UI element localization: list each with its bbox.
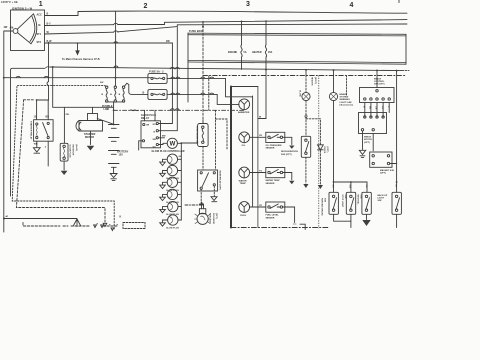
svg-text:S/W (OPT): S/W (OPT) [281, 154, 292, 156]
wire fuse1 output to ammeter [167, 78, 253, 96]
backup light switch [392, 192, 401, 214]
glow relay pin R3 stub [158, 137, 164, 139]
vertical feed at x116 from line A [115, 12, 117, 78]
wire relay R4 to W lamp [158, 143, 167, 144]
starter relay output down [45, 141, 48, 166]
glow plug 3 [160, 177, 182, 192]
svg-text:STOP LIGHT: STOP LIGHT [341, 195, 343, 208]
svg-text:YB: YB [259, 135, 262, 137]
svg-text:LINK: LINK [104, 108, 110, 111]
winch control switch [360, 79, 395, 103]
fuse box outline [188, 29, 406, 102]
svg-text:AM: AM [10, 27, 14, 30]
wire W lamp to glow fuse [177, 142, 197, 145]
tiny end arrows bottom [94, 225, 114, 231]
ground below neutral switch [362, 214, 370, 226]
svg-text:S/W: S/W [378, 200, 382, 202]
svg-text:BR: BR [46, 117, 50, 119]
junction dot glow bus top [180, 142, 182, 144]
ground below battery [110, 174, 117, 181]
svg-text:SW: SW [153, 139, 156, 141]
glow indicator W lamp [167, 138, 177, 148]
fusible link 2 [110, 86, 116, 102]
dashed stub x209 [208, 76, 210, 111]
svg-text:ENGINE: ENGINE [228, 52, 238, 54]
connector jog on line B [114, 23, 119, 24]
drops to switches [334, 182, 368, 192]
dashed below deceleration to arrow [303, 157, 308, 188]
wire water gauge to sender [250, 172, 266, 174]
svg-text:S/W: S/W [360, 195, 362, 199]
wire ACC (line A) [45, 11, 408, 15]
wire IG (line B) [45, 20, 408, 26]
junction dot on line B at x203 [202, 21, 204, 23]
fuse 5A-2 no2 [143, 90, 168, 100]
fusible link 1 [102, 86, 108, 102]
magnet switch to backup feed [390, 163, 397, 165]
starter motor [76, 114, 103, 140]
backup light feed [396, 71, 398, 193]
svg-text:K: K [120, 216, 122, 219]
fuse HEATER 20A [252, 21, 273, 118]
wire color labels above switches [331, 185, 396, 189]
backup return down [396, 214, 398, 227]
dashed below diode to arrow [318, 151, 323, 190]
stop light switch [346, 192, 355, 214]
feed drop to glow relay pin1 [215, 110, 217, 170]
long vertical from line C to glow relay pin2 [158, 28, 177, 131]
svg-text:B-Y: B-Y [47, 23, 52, 26]
ground below main relay [211, 186, 217, 202]
glow plug resistor feed [63, 107, 65, 143]
wire line C [45, 24, 408, 34]
junction dot winch feed [376, 69, 378, 71]
fuel sender return wire [283, 207, 295, 223]
main relay [198, 170, 222, 191]
ammeter gauge [238, 99, 250, 114]
svg-text:BW: BW [162, 136, 166, 138]
svg-text:GLOW PLUG CONTROLLER: GLOW PLUG CONTROLLER [152, 150, 185, 153]
svg-text:YG: YG [259, 170, 262, 172]
svg-text:GLOW: GLOW [299, 90, 301, 97]
glow plug 4 [160, 189, 182, 204]
links bottom bus [106, 102, 125, 125]
svg-text:DECELERATION: DECELERATION [281, 150, 298, 153]
svg-text:AMMETER: AMMETER [238, 111, 250, 114]
junction dot heater on wire E [265, 69, 267, 71]
ground at oil sender [283, 137, 295, 149]
svg-text:RELAY: RELAY [141, 117, 149, 120]
svg-text:DIODE: DIODE [323, 147, 325, 154]
dash-dot battery feed to glow relay [114, 109, 244, 111]
dashed end arrow x105 [103, 223, 107, 226]
svg-text:FUEL: FUEL [240, 215, 247, 217]
svg-text:WB: WB [34, 144, 38, 146]
dashed harness line inner [16, 100, 105, 223]
lamp wire down to switch row [333, 101, 335, 182]
svg-text:FUEL LEVEL: FUEL LEVEL [266, 215, 280, 217]
parking brake switch [329, 192, 338, 214]
svg-text:PARKING BRAKE: PARKING BRAKE [320, 198, 323, 216]
svg-text:(4+60): (4+60) [75, 145, 78, 152]
link3 top connection to fuse2 [125, 83, 148, 94]
switch row bus [334, 181, 368, 183]
glow lamp to deceleration dashed [305, 101, 307, 137]
fuse 5A-2 no1 [148, 71, 167, 84]
glow plug 5 [160, 201, 182, 216]
svg-text:BACK-UP: BACK-UP [378, 194, 388, 197]
twist symbol on battery feed [130, 109, 138, 112]
winch control feed [376, 70, 378, 87]
stop light switch label [341, 195, 346, 208]
dashed stub at starter relay feed [24, 99, 35, 101]
dashed feed into glow fuse [202, 120, 204, 124]
svg-text:SENDER: SENDER [266, 148, 275, 150]
connector jog on wire E [44, 67, 50, 69]
connector symbol on dashed [305, 115, 307, 119]
wire fuel gauge to sender [250, 206, 266, 208]
dash-dot engine border [203, 75, 407, 77]
svg-text:ST2: ST2 [37, 41, 42, 44]
svg-text:ACC: ACC [37, 14, 43, 17]
deceleration switch [301, 136, 310, 157]
connector jog on line D [114, 42, 119, 43]
svg-text:RESISTOR: RESISTOR [72, 145, 74, 156]
dotted panel border [318, 76, 320, 229]
wire oil gauge to sender [250, 136, 266, 138]
dashed winch opt border [346, 76, 348, 96]
dashed drop to main relay left [202, 147, 204, 171]
glow plug 6 [160, 215, 182, 230]
grid tick 5 [398, 0, 400, 3]
diode [318, 145, 329, 154]
fuel cut solenoid [194, 205, 217, 225]
water temp gauge [239, 167, 250, 185]
dashed feed to glow fuse [202, 22, 204, 120]
svg-text:FUSE BOX: FUSE BOX [189, 29, 203, 33]
dashed branch to diode [306, 119, 321, 145]
svg-text:GR: GR [331, 185, 333, 189]
svg-text:1: 1 [39, 1, 43, 8]
neutral switch [362, 192, 371, 214]
svg-text:L/Y: L/Y [381, 106, 383, 110]
ignition switch pin labels [37, 14, 43, 45]
left feed tail below junction [3, 219, 5, 233]
ground wire bottom left [4, 218, 77, 220]
svg-text:MOTOR: MOTOR [85, 136, 94, 139]
winch motor [359, 113, 387, 144]
oil gauge [239, 132, 250, 147]
fuse glow 30A [195, 124, 208, 147]
svg-text:S/W: S/W [324, 198, 326, 202]
connector jog on wire F [16, 76, 49, 77]
svg-text:To Main Chassis Harness 07-B: To Main Chassis Harness 07-B [62, 58, 100, 61]
svg-text:TEMP: TEMP [240, 183, 247, 185]
svg-text:GLOW PLUG: GLOW PLUG [69, 145, 71, 158]
glow relay pin2 stub [139, 141, 143, 150]
junction label bottom left [3, 218, 5, 220]
instrument cluster border [231, 87, 258, 228]
neutral switch label [356, 195, 361, 206]
ground below starter motor [87, 131, 95, 151]
parking brake switch label [320, 198, 325, 216]
wire E main feed [11, 67, 403, 196]
magnet switch link to winch motor [372, 134, 374, 151]
return wire end tick [293, 223, 296, 225]
starter relay [30, 120, 54, 142]
wire line D [45, 42, 173, 44]
ground below resistor [61, 161, 68, 175]
link1 top dashed wire to left [12, 85, 114, 229]
junction dot fuse engine top [241, 21, 243, 23]
hops on battery feed over verticals [170, 109, 179, 111]
dash-dot bottom border left [23, 223, 117, 227]
brake lamp label [340, 93, 354, 106]
battery [109, 125, 129, 174]
dash-dot stub left of solenoid [185, 204, 202, 206]
svg-text:WATER: WATER [239, 179, 247, 182]
svg-text:MAIN RELAY (OPT): MAIN RELAY (OPT) [219, 171, 222, 191]
svg-text:4: 4 [350, 2, 354, 9]
wire E to starter solenoid [53, 67, 114, 114]
svg-text:OIL PRESSURE: OIL PRESSURE [266, 145, 283, 147]
svg-text:(OPT): (OPT) [380, 173, 386, 175]
svg-text:SENDER: SENDER [266, 217, 275, 219]
svg-text:(OPT): (OPT) [215, 213, 217, 219]
junction dot fuse heater top [265, 20, 267, 22]
svg-text:(illumination): (illumination) [340, 103, 354, 106]
svg-text:GW: GW [349, 185, 351, 189]
svg-text:LIGHT 3.4W: LIGHT 3.4W [340, 101, 352, 104]
connector jogs on fuse1 output [171, 77, 215, 78]
svg-text:20A: 20A [268, 51, 273, 54]
svg-text:L/B: L/B [375, 106, 377, 110]
svg-text:S/W (OPT): S/W (OPT) [374, 84, 385, 86]
svg-text:GO: GO [153, 146, 157, 148]
glow plug 2 [160, 165, 182, 180]
ground at water sender [283, 173, 295, 185]
junction dot wire F start [3, 77, 5, 79]
svg-text:W: W [170, 142, 176, 148]
heater opt vertical label [311, 77, 316, 86]
ignition switch rotor cone [10, 14, 37, 44]
svg-text:(OPT): (OPT) [364, 142, 370, 144]
winch wires down with labels [363, 103, 390, 118]
magnet switch [370, 152, 394, 175]
svg-text:STARTER RELAY: STARTER RELAY [30, 121, 33, 140]
glow indicator lamp [302, 69, 310, 101]
parking brake return [334, 214, 351, 221]
wire AM to left feed [4, 31, 13, 219]
svg-text:IG: IG [38, 24, 41, 27]
svg-text:FUEL CUT: FUEL CUT [209, 213, 211, 224]
svg-text:MAGNET S/W: MAGNET S/W [380, 169, 394, 172]
junction dot on wire E x47 [52, 66, 54, 68]
glow plug 1 [160, 154, 182, 165]
long vertical from line D to glow relay pin1 [158, 43, 172, 124]
ignition switch box [11, 7, 45, 51]
glow bus vertical [180, 143, 182, 220]
cluster bottom dash-dot border [231, 227, 328, 229]
svg-text:3: 3 [246, 1, 250, 8]
svg-text:RB: RB [365, 185, 367, 189]
junction dot D-branch [77, 42, 79, 44]
svg-text:GB: GB [179, 156, 183, 158]
svg-text:2: 2 [144, 3, 148, 10]
svg-text:OR: OR [146, 125, 150, 127]
ground below winch motor [359, 131, 365, 157]
oil pressure sender [266, 132, 285, 149]
svg-text:WATER TEMP: WATER TEMP [266, 179, 281, 182]
fuel level sender [266, 202, 285, 219]
wire F feed [4, 77, 151, 79]
svg-text:SENDER: SENDER [266, 183, 275, 185]
brake warning lamp [329, 69, 337, 100]
connector jog at feed x116 on wire E [114, 66, 179, 69]
small arrow under line B junction [202, 25, 204, 28]
svg-text:OIL: OIL [242, 145, 246, 147]
body ground arrow at wire end [74, 219, 81, 227]
svg-text:STO: STO [153, 124, 158, 126]
svg-text:SOLENOID: SOLENOID [212, 213, 214, 225]
junction dot battery top [113, 124, 115, 126]
wire heater fuse to cluster [258, 118, 266, 120]
connector jogs on fuse2 output [171, 93, 215, 94]
svg-text:YR: YR [259, 205, 262, 207]
svg-text:ST1: ST1 [37, 33, 42, 36]
wire E continuation dashes at right end [402, 70, 409, 72]
glow relay pin1 feed from battery line [145, 110, 156, 121]
svg-text:(SOFT): (SOFT) [314, 77, 316, 84]
glow plug resistor [60, 143, 78, 161]
svg-text:NEUTRAL: NEUTRAL [356, 195, 359, 206]
svg-text:S/W: S/W [344, 195, 346, 199]
svg-text:FUSE GLOW 30A: FUSE GLOW 30A [195, 126, 198, 144]
starter relay feed wires [34, 42, 50, 120]
battery cable to starter diagonal [97, 119, 112, 124]
junction dot backup feed top [396, 70, 398, 72]
svg-text:HEATER: HEATER [252, 51, 262, 54]
svg-text:(OPT): (OPT) [326, 147, 328, 153]
junction tick fuel cut [200, 202, 204, 206]
deceleration switch label [281, 150, 298, 156]
glow plug relay [141, 114, 161, 148]
svg-text:L5377 F + 1B: L5377 F + 1B [1, 0, 18, 4]
bracket at dash-dot end [300, 224, 305, 229]
svg-text:GLOW PLUG: GLOW PLUG [166, 228, 179, 230]
fuse ENGINE 5A [228, 21, 247, 69]
svg-text:WARNING: WARNING [340, 98, 351, 101]
ground below starter relay [33, 141, 40, 153]
wire fuse2 output [167, 94, 239, 104]
water temp sender [266, 168, 285, 185]
arrow to main chassis harness [62, 43, 100, 61]
fusible link 3 [119, 86, 125, 102]
stop light return down [350, 214, 352, 227]
dashed box K [123, 223, 145, 229]
dashed branch right of battery feed [216, 119, 228, 150]
svg-text:B: B [47, 13, 49, 16]
junction dot dash-dot start [113, 109, 115, 111]
junction dot link2 on wire F [115, 77, 117, 79]
svg-text:12V: 12V [119, 154, 124, 157]
junction dots switch bus [333, 181, 335, 183]
svg-text:IGNITION S + W: IGNITION S + W [12, 7, 33, 11]
fuel gauge [239, 202, 250, 217]
svg-text:HEATER: HEATER [311, 77, 314, 86]
link2 top connection [115, 78, 117, 86]
connector jog on line C [114, 31, 119, 32]
svg-text:1G: 1G [34, 117, 37, 119]
dashed drop to fuel cut solenoid [200, 189, 202, 204]
backup light switch label [378, 194, 388, 202]
svg-text:5A: 5A [244, 51, 247, 54]
junction dot backup at switch row [396, 181, 398, 183]
